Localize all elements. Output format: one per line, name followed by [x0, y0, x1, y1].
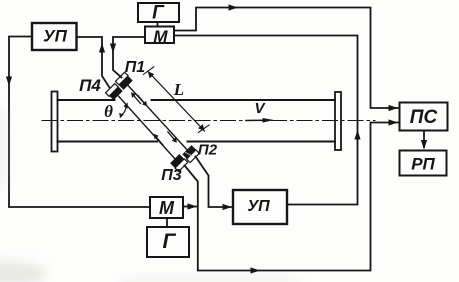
transducer П4 housing outline	[106, 84, 119, 97]
pipe axis centerline (dash-dot)	[42, 120, 375, 122]
dimension line L with end arrows	[143, 67, 209, 133]
box УП upper amplifier U1	[32, 23, 77, 50]
svg-text:Г: Г	[163, 230, 177, 253]
box М lower modulator	[150, 197, 183, 218]
wire М-upper output to П1	[113, 37, 145, 78]
box ПС phase comparator	[400, 103, 448, 131]
transducer П2 housing outline	[187, 150, 200, 163]
svg-text:ПС: ПС	[410, 107, 438, 128]
pipe left flange	[52, 92, 58, 152]
transducer П3 element (black)	[170, 154, 184, 168]
arrow up on П4 wire	[99, 43, 105, 53]
wire УП-upper output, left-down-right to М-lower input	[9, 37, 150, 208]
arrow into РП	[421, 140, 427, 150]
transducer П2 element (black, hatched)	[182, 145, 196, 159]
transducer П1 housing outline	[115, 72, 128, 85]
box Г upper generator	[138, 3, 179, 22]
scan smudge bottom left	[0, 261, 46, 282]
box РП recorder	[400, 151, 447, 176]
beam arrow up-left (upper pair)	[131, 92, 141, 103]
box М upper modulator	[145, 27, 174, 44]
svg-text:П3: П3	[161, 167, 182, 184]
pipe top wall right segment	[152, 99, 336, 101]
connector Г-upper to М-upper	[157, 22, 159, 27]
wire ПС to РП	[423, 131, 425, 148]
arrow up on right vertical wire	[354, 130, 360, 140]
acoustic channel wall П1-П2	[128, 85, 187, 149]
box УП lower amplifier	[233, 190, 287, 224]
pipe bottom wall right segment	[188, 141, 336, 143]
arrow down on left vertical wire	[6, 77, 12, 87]
beam arrow down-right (lower pair)	[168, 132, 177, 143]
svg-text:П4: П4	[79, 76, 101, 95]
arrow into УП-lower	[223, 204, 233, 210]
arrow into ПС input 2	[389, 119, 399, 125]
beam arrow up-left (lower pair)	[154, 134, 164, 145]
arrow right on bottom wire	[251, 267, 261, 273]
acoustic channel wall П4-П3	[118, 96, 175, 159]
arrow into ПС input 1	[389, 105, 399, 111]
svg-text:РП: РП	[411, 155, 435, 174]
beam arrow down-right (upper pair)	[138, 96, 147, 107]
flow velocity arrow V	[246, 118, 274, 123]
svg-text:Г: Г	[152, 3, 165, 24]
box Г lower generator	[147, 227, 189, 257]
svg-text:θ: θ	[104, 102, 113, 121]
angle marker θ double arrow	[119, 103, 128, 119]
wire УП-lower output up to М-upper input	[174, 36, 358, 205]
pipe right flange	[335, 92, 341, 150]
transducer П4 element (black)	[109, 86, 123, 100]
svg-text:П1: П1	[125, 59, 146, 76]
svg-text:УП: УП	[247, 198, 270, 215]
arrow right on top wire	[229, 4, 239, 10]
svg-text:М: М	[153, 27, 168, 46]
wire М-upper to ПС input 1 (top long run)	[174, 8, 400, 109]
scan smudge left edge	[0, 105, 6, 195]
arrow down on П1 wire	[110, 44, 116, 54]
svg-text:П2: П2	[198, 142, 218, 159]
svg-text:V: V	[254, 100, 266, 117]
svg-text:УП: УП	[43, 27, 68, 46]
pipe bottom wall left segment	[58, 141, 158, 143]
wire П2 to УП-lower input	[196, 157, 232, 208]
transducer П1 element (black)	[119, 76, 133, 90]
pipe top wall left segment	[58, 99, 115, 101]
wire П4 to УП-upper input	[77, 37, 110, 88]
svg-text:L: L	[173, 80, 184, 99]
arrow into П3 node	[188, 203, 198, 209]
transducer П2 hatch stripe	[186, 153, 193, 157]
connector М-lower to Г-lower	[166, 218, 168, 227]
wire П3 node down along bottom to ПС input 2	[185, 123, 400, 271]
wire М-lower output to П3 node	[183, 206, 196, 208]
transducer П3 housing outline	[175, 159, 188, 172]
svg-text:М: М	[159, 198, 175, 218]
scan smudge bottom center	[120, 277, 300, 282]
